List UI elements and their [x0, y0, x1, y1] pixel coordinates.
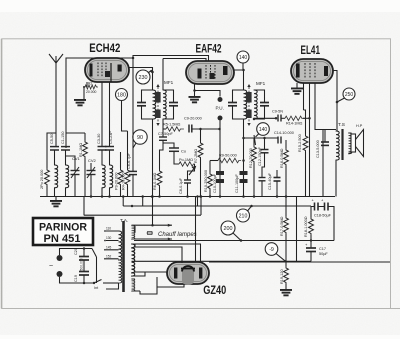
tap labels: [106, 227, 112, 259]
wire grid inner: [163, 59, 206, 62]
node circle 90: [133, 130, 147, 148]
svg-text:R1-1MΩ: R1-1MΩ: [79, 143, 83, 157]
svg-text:110: 110: [106, 227, 111, 231]
wire cathode C3: [101, 82, 103, 146]
svg-text:H.P: H.P: [356, 124, 363, 128]
svg-text:R7-2MΩ: R7-2MΩ: [194, 149, 198, 163]
ground below EL41: [291, 83, 303, 95]
svg-text:MF1: MF1: [256, 81, 266, 86]
HT line y240: [134, 240, 334, 242]
svg-text:EL41: EL41: [301, 43, 321, 57]
svg-text:C18-50µF: C18-50µF: [314, 214, 332, 218]
wire EL41 anode: [333, 71, 337, 132]
wire bus to heater: [152, 197, 154, 226]
svg-text:180: 180: [117, 92, 126, 98]
svg-text:Po-1MΩ: Po-1MΩ: [179, 158, 193, 162]
svg-text:-9: -9: [269, 247, 274, 253]
capacitor C9 series diode out: [275, 115, 281, 122]
svg-text:R19-120: R19-120: [280, 269, 284, 284]
wire C7 to R6: [160, 140, 164, 169]
svg-text:20.000: 20.000: [86, 90, 96, 94]
svg-text:C11-100µF: C11-100µF: [235, 174, 239, 193]
power transformer TA: [104, 221, 123, 292]
mains wiring top: [60, 249, 93, 256]
capacitor across MF1 primary: [137, 90, 153, 119]
wire HT bottom: [135, 272, 145, 276]
svg-text:R12-70.000: R12-70.000: [249, 148, 253, 168]
resistor R10: [208, 172, 213, 197]
svg-text:R4-10.000: R4-10.000: [122, 172, 126, 190]
capacitor C19: [79, 272, 89, 285]
junction dot anode line: [336, 101, 339, 104]
svg-text:90: 90: [137, 135, 143, 141]
svg-text:500.000: 500.000: [80, 258, 84, 270]
PARINOR box: [33, 218, 93, 245]
svg-text:250: 250: [345, 92, 354, 98]
MF2 tuning slugs: [246, 92, 252, 103]
capacitor C1: [61, 147, 70, 165]
AVC line: [242, 137, 277, 149]
wire EAF42 anode to MF2: [234, 70, 244, 90]
svg-text:Chauff lampes: Chauff lampes: [158, 232, 197, 238]
pot wiper arrow: [189, 167, 196, 176]
svg-text:50µF: 50µF: [319, 252, 328, 256]
wire antenna down: [55, 63, 57, 146]
heater voltage mark: [147, 232, 154, 235]
node circle -9: [265, 243, 286, 263]
MF1 tuning slugs: [155, 92, 161, 103]
B+ distribution line: [122, 195, 311, 207]
mains wiring bottom: [60, 277, 94, 283]
resistor R6 vertical: [157, 169, 162, 197]
resistor R2 heptode: [83, 82, 98, 99]
wire diode line top: [133, 56, 209, 62]
capacitor C4: [105, 147, 114, 151]
switch blade top: [92, 249, 97, 258]
coil L1: [55, 165, 58, 197]
tube ECH42: [85, 58, 129, 82]
secondary HT winding: [132, 244, 135, 273]
svg-text:R18-1.000Ω: R18-1.000Ω: [304, 216, 308, 237]
ground bus left: [50, 197, 62, 208]
junction dot: [132, 57, 135, 60]
svg-text:R2: R2: [88, 81, 92, 85]
tube EAF42: [186, 61, 234, 84]
switch blade bottom: [93, 280, 119, 285]
svg-text:145: 145: [106, 245, 112, 249]
capacitor C11 paper: [240, 171, 248, 183]
junction dot: [242, 69, 245, 72]
wire field return: [296, 197, 298, 262]
svg-text:R6-0.1MΩ: R6-0.1MΩ: [153, 172, 157, 190]
wire rect filament: [140, 287, 157, 294]
border frame: [2, 39, 391, 309]
svg-text:R17-0.5MΩ: R17-0.5MΩ: [280, 216, 284, 236]
wire lamp feed vertical: [200, 195, 203, 215]
wire TS primary bottom: [335, 160, 337, 197]
mains plug dots: [57, 255, 63, 277]
resistor R7 vertical: [198, 129, 203, 197]
svg-text:C13-5.000: C13-5.000: [316, 140, 320, 158]
junction dots bus: [90, 195, 288, 198]
svg-text:200: 200: [224, 226, 233, 232]
svg-text:C8-0.1µF: C8-0.1µF: [179, 177, 183, 194]
ground below EAF42: [189, 84, 221, 103]
wire MF1 pri bottom down: [152, 119, 154, 197]
wire switch to transformer: [96, 257, 98, 283]
capacitor C13: [321, 130, 329, 146]
junction dot: [151, 195, 154, 198]
svg-text:T.S: T.S: [338, 122, 345, 128]
wire circle180 to R4: [122, 101, 128, 132]
resistor R17 vertical: [284, 197, 289, 262]
svg-text:GZ40: GZ40: [203, 283, 226, 297]
junction dot R14 cathode: [308, 117, 311, 120]
svg-text:130: 130: [106, 236, 112, 240]
secondary heater winding: [132, 225, 135, 239]
svg-text:C14-10.000: C14-10.000: [274, 131, 294, 135]
wire EL41 grid: [303, 83, 305, 110]
svg-text:C15-40µF: C15-40µF: [268, 172, 272, 190]
capacitor C8: [184, 180, 191, 197]
wire B+ from GZ40: [209, 261, 390, 263]
node circle 210: [237, 206, 252, 222]
coil L4: [110, 150, 113, 197]
capacitor across MF2 secondary: [254, 90, 269, 119]
resistor R14 horizontal: [281, 116, 310, 120]
svg-text:~: ~: [49, 263, 53, 270]
capacitor C6: [129, 171, 137, 196]
wire bus stub: [197, 197, 199, 207]
svg-text:C19: C19: [74, 275, 78, 282]
svg-text:PN 451: PN 451: [44, 233, 81, 245]
capacitor C10 paper: [216, 129, 224, 197]
node circle 140 lower: [256, 123, 270, 137]
capacitor C12b: [259, 153, 266, 197]
svg-text:210: 210: [239, 214, 248, 220]
svg-text:MF1: MF1: [164, 80, 174, 85]
svg-text:C4-23P: C4-23P: [109, 131, 113, 144]
speaker: [349, 130, 364, 157]
svg-text:T.A.: T.A.: [120, 218, 128, 224]
wire MF2 sec bottom to diode: [254, 117, 276, 120]
wire osc grid line: [132, 58, 134, 171]
wire screen bus down: [322, 130, 324, 197]
capacitor C15 electrolytic: [274, 170, 281, 197]
wire osc top: [66, 132, 86, 134]
wire ECH42 anode to MF1: [129, 68, 153, 91]
svg-text:C7-50pF: C7-50pF: [158, 132, 173, 136]
svg-text:R10-250.000: R10-250.000: [204, 170, 208, 192]
resistor R1: [83, 133, 88, 197]
capacitor Co: [163, 143, 179, 151]
node circle 140 top: [237, 51, 249, 70]
resistor 2Po: [45, 133, 56, 197]
junction dot: [151, 71, 154, 74]
scan left edge: [1, 39, 3, 309]
secondary rect winding: [132, 279, 135, 291]
filter caps C18: [311, 198, 334, 241]
node circle 180: [116, 89, 128, 101]
capacitor C3: [98, 147, 107, 151]
wire HT top to 247: [134, 244, 136, 247]
resistor R18 vertical: [309, 207, 314, 242]
capacitor C12: [261, 150, 269, 153]
wire EL41 screen down: [315, 83, 336, 130]
capacitor C5: [50, 147, 59, 165]
resistor R16 vertical: [284, 140, 289, 197]
wire MF2 pri bottom: [243, 119, 245, 197]
heater line 1: [134, 224, 172, 227]
resistor R15 vertical: [303, 110, 308, 197]
wire g1 C4: [109, 82, 111, 146]
node circle 230: [136, 70, 153, 84]
capacitor C20: [79, 247, 89, 260]
capacitor C9 series: [189, 125, 221, 133]
PU terminal dot: [218, 97, 223, 102]
svg-text:C3-30: C3-30: [97, 134, 101, 144]
wire MF1 sec top: [162, 59, 164, 91]
resistor R5 horizontal: [163, 127, 184, 131]
resistor P3: [118, 152, 123, 197]
resistor R12 vertical: [252, 135, 257, 197]
antenna: [49, 54, 63, 63]
svg-text:C10-100µF: C10-100µF: [213, 173, 217, 193]
capacitor C7: [159, 129, 167, 140]
svg-text:140: 140: [259, 127, 268, 133]
svg-text:P3-20.000: P3-20.000: [115, 172, 119, 190]
svg-text:C5-50: C5-50: [50, 134, 54, 144]
svg-text:P.U.: P.U.: [216, 106, 224, 111]
ground below R19: [280, 289, 292, 296]
wire anode1: [134, 247, 182, 263]
svg-text:R16-0.5MΩ: R16-0.5MΩ: [280, 148, 284, 168]
wire MF1 sec bottom: [162, 119, 164, 129]
label 500.000: [80, 258, 85, 271]
svg-text:C9-5N: C9-5N: [272, 110, 283, 114]
PU terminal dot 2: [218, 116, 223, 130]
resistor R9 horizontal: [210, 158, 245, 172]
node circle 250: [337, 88, 355, 102]
svg-text:2Po 20.000: 2Po 20.000: [40, 170, 44, 189]
wire vert anode feed: [195, 197, 197, 263]
tube GZ40: [167, 262, 209, 285]
resistor R19 vertical: [284, 261, 289, 289]
svg-text:230: 230: [139, 75, 148, 81]
svg-text:C12-150pF: C12-150pF: [258, 146, 262, 166]
svg-text:ECH42: ECH42: [89, 43, 120, 55]
capacitor C17: [305, 241, 316, 262]
wire filament left: [135, 271, 167, 273]
secondary HT winding b: [132, 248, 135, 276]
svg-text:Co: Co: [181, 149, 187, 154]
ground below R2: [74, 99, 86, 106]
lower distribution line: [84, 214, 201, 216]
capacitor C14 vol: [278, 137, 281, 144]
wire anode2: [134, 244, 201, 262]
svg-text:152: 152: [106, 254, 112, 258]
svg-text:C9-20.000: C9-20.000: [184, 117, 202, 121]
coil L2: [66, 165, 69, 197]
trimmer CV2: [87, 163, 96, 197]
node circle 200: [221, 221, 242, 242]
svg-text:R9-50.000: R9-50.000: [219, 154, 237, 158]
secondary wires: [132, 225, 141, 291]
tube EL41: [291, 59, 333, 83]
svg-text:C6-6.7µF: C6-6.7µF: [127, 152, 131, 169]
wire bus to mains ground: [83, 197, 85, 216]
svg-text:C20: C20: [74, 248, 78, 255]
bias line y261: [134, 260, 311, 262]
svg-text:R15-2.500: R15-2.500: [298, 134, 302, 152]
coil L3: [102, 150, 105, 197]
wire CV1 top: [66, 156, 76, 160]
wire filament step: [157, 277, 184, 287]
wire grid top: [66, 58, 133, 148]
resistor Ro pot horizontal: [174, 151, 195, 179]
svg-text:140: 140: [239, 55, 248, 61]
svg-text:C17: C17: [319, 247, 326, 251]
svg-text:R5-1.5MΩ: R5-1.5MΩ: [163, 123, 181, 127]
IF transformer MF1: [153, 84, 167, 126]
svg-text:C1-150: C1-150: [61, 132, 65, 144]
heater line 2: [134, 238, 172, 241]
svg-text:PARINOR: PARINOR: [39, 222, 87, 234]
resistor R4: [125, 131, 130, 197]
output transformer TS: [336, 129, 352, 160]
svg-text:CV2: CV2: [88, 158, 97, 163]
svg-text:R14-1MΩ: R14-1MΩ: [286, 122, 303, 126]
junction dot: [253, 118, 256, 121]
wire heater top: [134, 226, 136, 239]
svg-text:EAF42: EAF42: [196, 44, 222, 56]
IF transformer MF2: [244, 84, 258, 126]
wire EL41 cathode down: [309, 83, 311, 197]
capacitor across MF2 primary: [228, 90, 244, 119]
capacitor across MF1 secondary: [163, 90, 178, 119]
main chassis bus: [40, 196, 335, 198]
page bottom scan edge: [391, 308, 400, 310]
trimmer CV1: [71, 160, 80, 197]
